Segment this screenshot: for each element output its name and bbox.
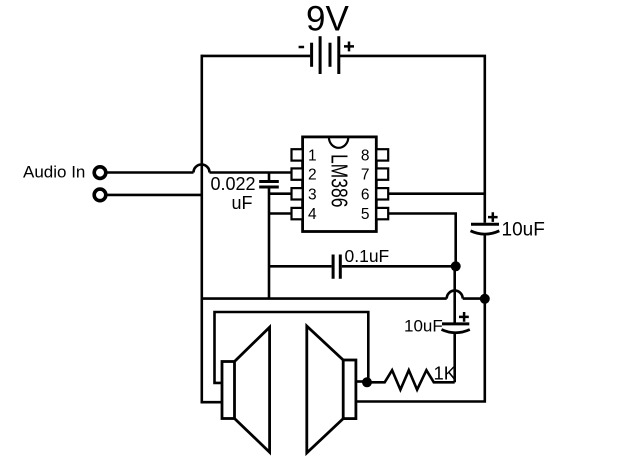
svg-text:6: 6 [361,186,370,203]
wire pin 6 to right rail [388,192,485,195]
battery minus sign [299,46,305,49]
speaker SP2 cone [307,326,343,453]
svg-text:7: 7 [361,167,370,184]
svg-text:10uF: 10uF [404,317,443,336]
pin 7 box [376,168,388,179]
wire from junction dot down through C4 [453,266,456,322]
capacitor C4 10uF top plate [442,322,469,325]
pin 6 box [376,188,388,199]
capacitor C2 plates [333,255,340,279]
wire right rail below C3 down to bottom-right corner and to speaker SP2 [356,235,485,402]
pin 2 box [292,168,303,179]
op-amp U1 LM386 body [303,137,377,232]
wire to pin 3 [269,192,292,195]
capacitor C2 right wire to junction [342,265,456,268]
svg-text:4: 4 [308,206,317,223]
capacitor C2 0.1uF left wire [269,265,332,268]
wire from C1 bottom down to ground line [268,188,271,298]
audio input terminal J2 (bottom) [94,189,106,201]
U1 notch [329,137,348,148]
wire top-left from battery minus to left rail [202,55,310,58]
wire audio top from hop to pin 2 [210,171,292,174]
junction dot on right rail [480,294,490,304]
pin 3 box [292,188,303,199]
speaker SP2 driver box [343,360,356,419]
svg-text:3: 3 [308,186,317,203]
svg-text:2: 2 [308,167,317,184]
wire SP2 right terminal to dot [356,380,367,383]
speaker SP1 driver box [222,362,235,419]
svg-text:0.1uF: 0.1uF [345,246,390,266]
capacitor C4 curved plate [442,330,470,333]
svg-text:LM386: LM386 [327,154,353,208]
svg-text:5: 5 [361,206,370,223]
svg-text:0.022: 0.022 [211,174,256,194]
ground line from left rail to right rail with hop [203,297,447,300]
wire to pin 4 [269,212,292,215]
resistor R1 1K zigzag [367,370,455,390]
svg-text:8: 8 [361,148,370,165]
capacitor C3 curved plate [471,231,500,234]
wire top-right from battery plus to right rail corner [340,56,485,223]
speaker SP1 cone [235,327,270,452]
battery plus sign [344,42,354,52]
battery B1 9V [312,36,339,74]
svg-text:Audio In: Audio In [23,162,85,181]
ground line after hop to right rail [463,297,485,300]
svg-text:uF: uF [232,193,253,213]
C4 plus sign [459,312,469,322]
pin 4 box [292,208,303,219]
capacitor C3 10uF top plate [471,223,499,226]
wire hop over left rail [194,165,210,173]
pin 1 box [292,149,303,160]
wire left rail from top corner down to bottom-left, to speaker SP1 lower terminal [202,55,222,403]
wire below C4 down to resistor level [453,333,456,382]
svg-text:9V: 9V [306,0,349,39]
wire pin 5 right then down [388,214,456,267]
inner wire box: SP1 upper terminal up, across, down to SP2 dot [215,312,369,383]
hop over vertical line [447,291,463,299]
capacitor C1 0.022uF stub from pin2 wire [268,173,271,181]
svg-text:10uF: 10uF [502,220,545,241]
audio input terminal J1 (top) [94,167,106,179]
junction dot at 0.1uF and pin5 line [451,261,461,271]
pin 5 box [376,208,388,219]
capacitor C1 plates [259,182,279,188]
wire audio top to hop [107,171,194,174]
C3 plus sign [488,212,498,222]
wire audio bottom to left rail [107,194,203,197]
svg-text:1: 1 [308,148,317,165]
pin 8 box [376,149,388,160]
svg-text:1K: 1K [434,363,457,384]
junction dot at speaker SP2 terminal [362,377,372,387]
